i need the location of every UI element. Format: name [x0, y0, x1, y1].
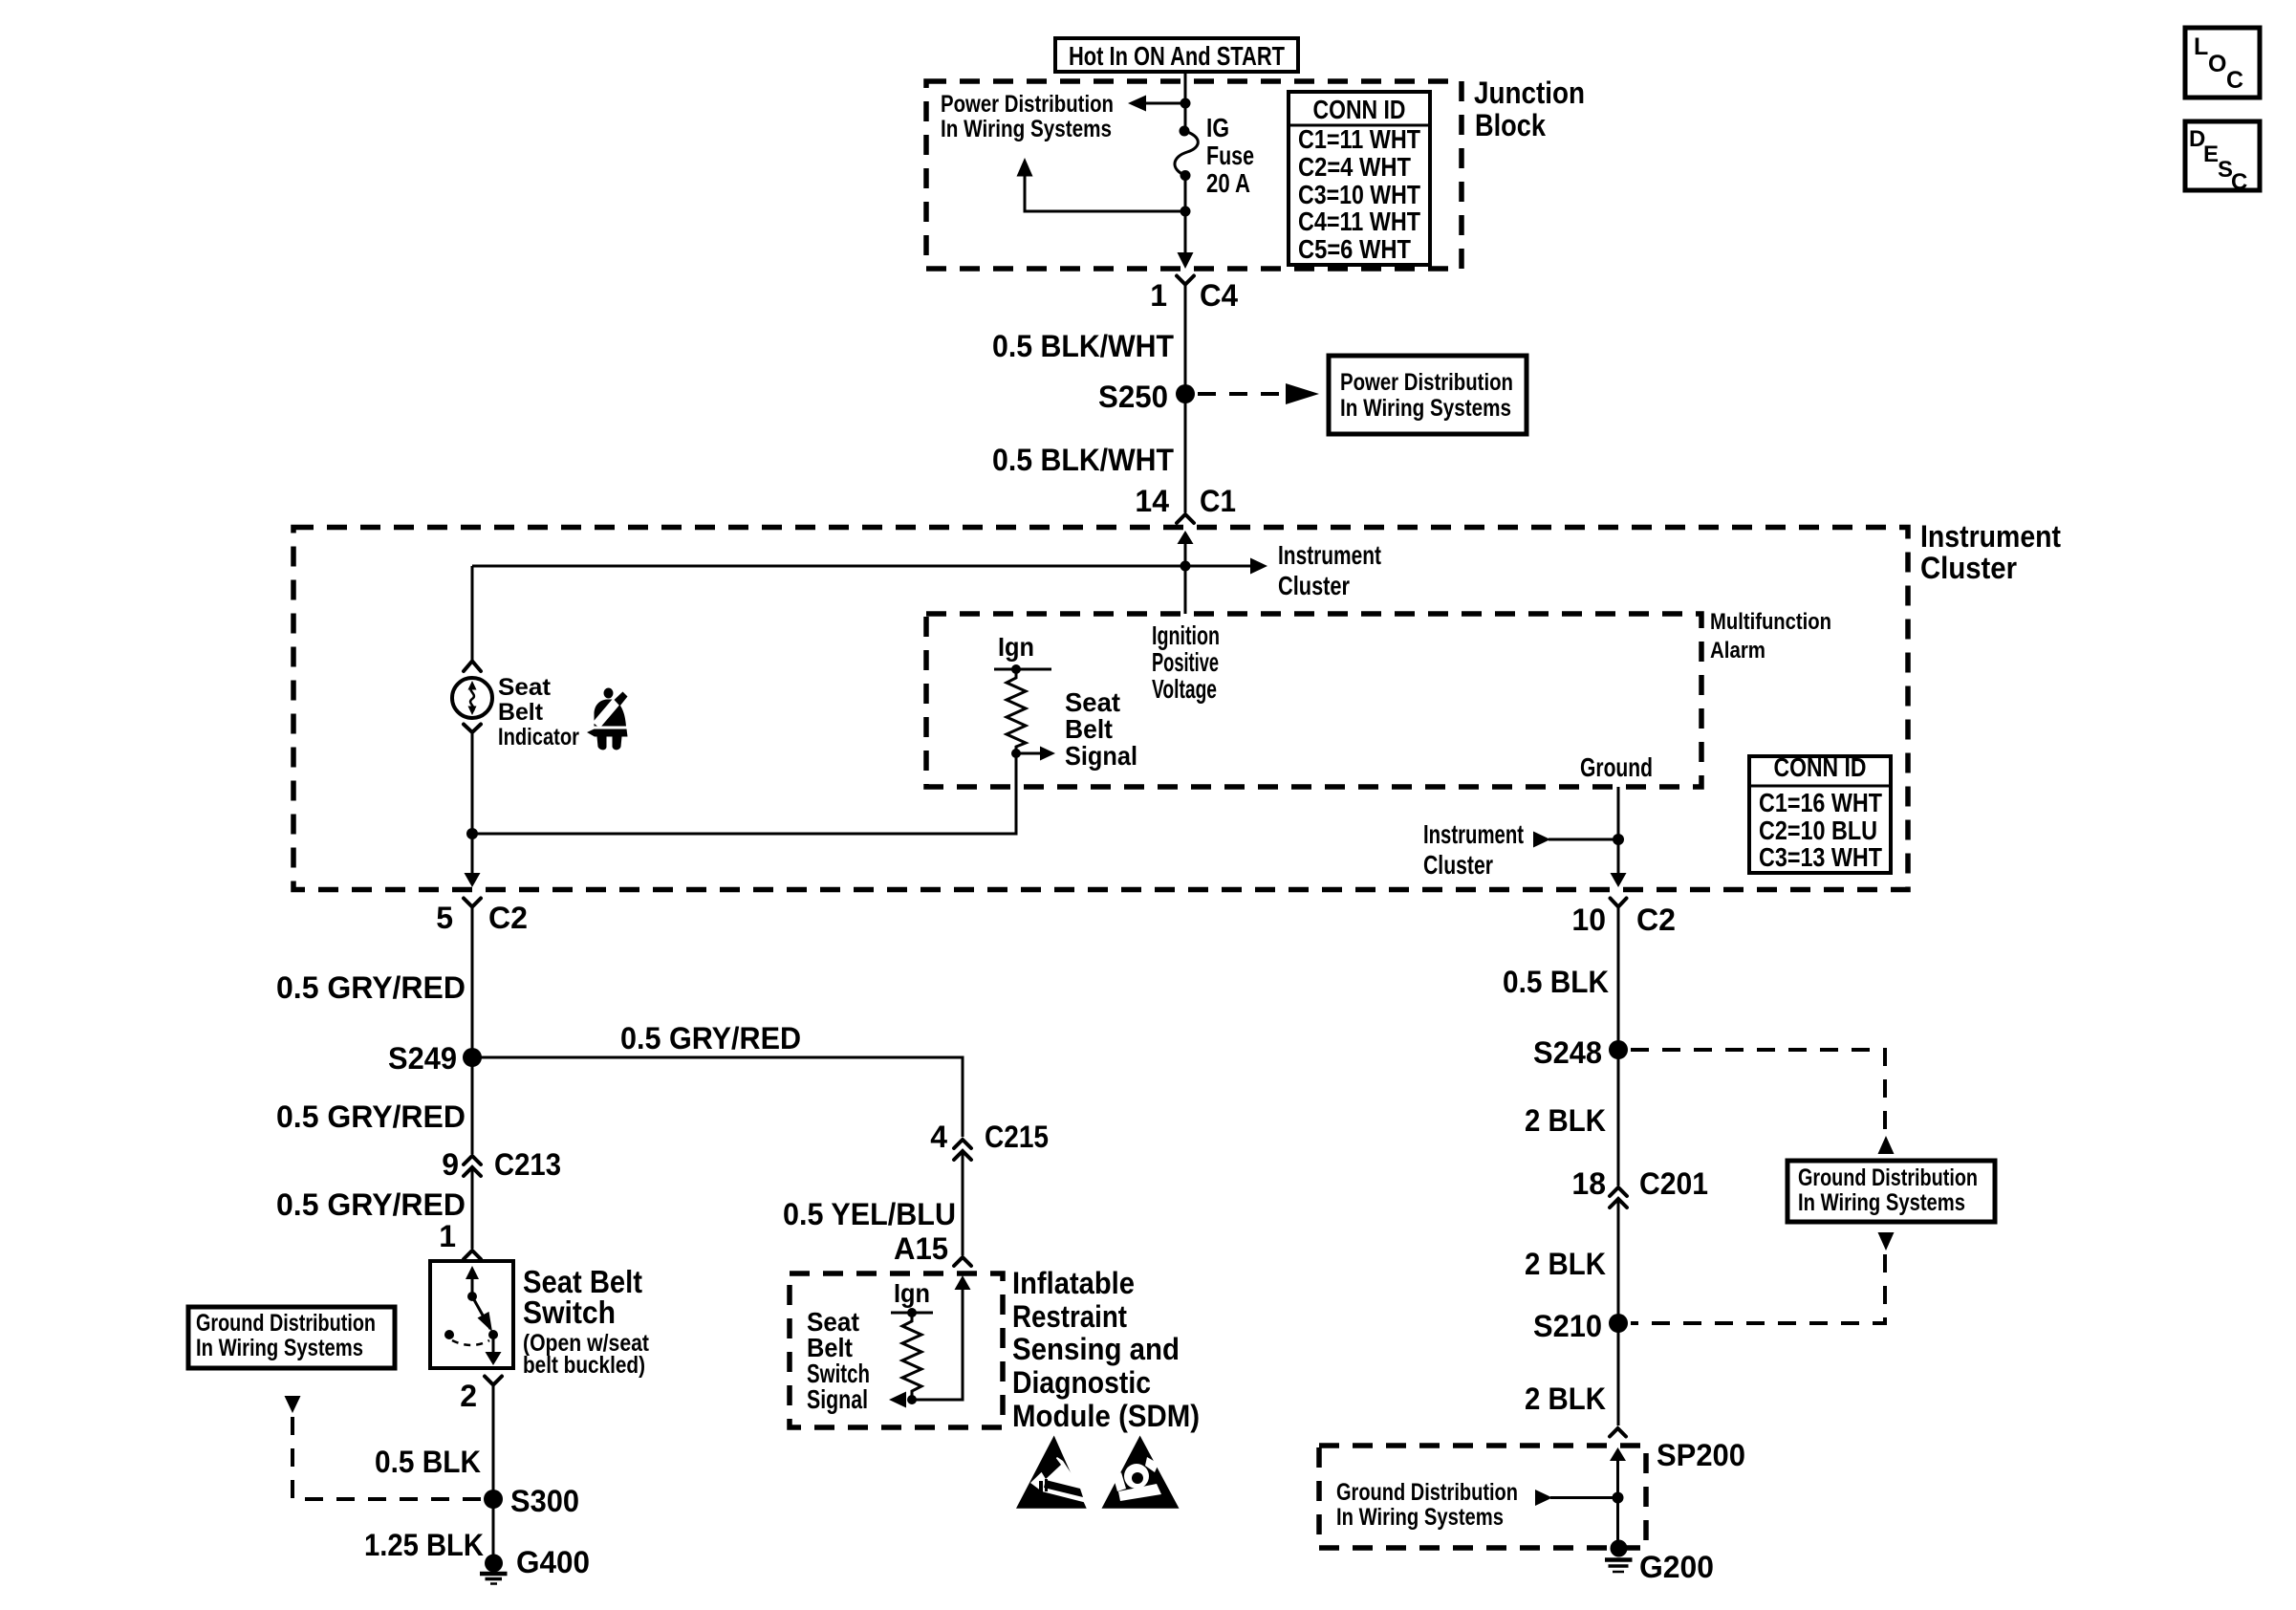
ESD warning triangle (electrostatic) — [1016, 1436, 1087, 1509]
svg-text:0.5 BLK: 0.5 BLK — [375, 1445, 481, 1479]
svg-text:In Wiring Systems: In Wiring Systems — [1336, 1504, 1504, 1531]
svg-text:C1: C1 — [1200, 484, 1236, 518]
multifunction alarm (dashed box) — [926, 614, 1701, 787]
label: Ignition Positive Voltage — [1152, 620, 1220, 704]
svg-text:18: 18 — [1571, 1166, 1606, 1201]
connector 4 C215 (in-line) — [930, 1120, 1049, 1160]
svg-text:C2=4 WHT: C2=4 WHT — [1298, 152, 1411, 182]
dashed reference link from S248 to ground distribution — [1631, 1050, 1895, 1154]
svg-text:Power Distribution: Power Distribution — [1340, 369, 1513, 396]
svg-text:C: C — [2226, 67, 2243, 94]
svg-text:S249: S249 — [388, 1041, 457, 1076]
entry arrow A15 into SDM — [912, 1275, 971, 1400]
svg-text:20 A: 20 A — [1206, 168, 1250, 198]
svg-text:C215: C215 — [985, 1120, 1049, 1154]
entry arrow C1 into instrument cluster — [1178, 531, 1194, 566]
svg-text:SP200: SP200 — [1657, 1438, 1745, 1472]
svg-text:0.5 BLK/WHT: 0.5 BLK/WHT — [992, 329, 1174, 363]
svg-text:Signal: Signal — [807, 1384, 868, 1414]
svg-text:Multifunction: Multifunction — [1710, 609, 1831, 635]
connector SP200 (chevron above splice pack) — [1610, 1428, 1626, 1437]
svg-text:2 BLK: 2 BLK — [1525, 1382, 1606, 1416]
svg-text:Ignition: Ignition — [1152, 620, 1220, 650]
svg-text:Cluster: Cluster — [1920, 551, 2017, 585]
wire 10 C2 down to S248 — [1617, 907, 1620, 1051]
svg-text:Fuse: Fuse — [1206, 141, 1254, 170]
splice S250 — [1098, 380, 1195, 414]
svg-text:4: 4 — [930, 1120, 947, 1154]
ground wire (multifunction alarm) — [1580, 752, 1653, 881]
svg-text:0.5 GRY/RED: 0.5 GRY/RED — [276, 1187, 466, 1222]
svg-text:Power Distribution: Power Distribution — [941, 91, 1114, 118]
SP200 splice pack (dashed box) — [1319, 1446, 1646, 1548]
svg-text:0.5 BLK/WHT: 0.5 BLK/WHT — [992, 443, 1174, 477]
connector 5 C2 (left) — [436, 899, 528, 936]
connector pin 2 (seat belt switch) — [460, 1377, 502, 1414]
node at resistor bottom — [1011, 749, 1021, 758]
wire S300 to G400 — [492, 1499, 495, 1556]
svg-text:Hot In ON And START: Hot In ON And START — [1069, 41, 1285, 71]
svg-text:S248: S248 — [1533, 1035, 1602, 1070]
svg-text:C201: C201 — [1639, 1166, 1708, 1201]
svg-text:C213: C213 — [494, 1147, 561, 1182]
svg-text:2 BLK: 2 BLK — [1525, 1247, 1606, 1281]
wire down to S249 splice continued (left column to C213) — [471, 1057, 474, 1154]
svg-text:C2: C2 — [488, 901, 528, 935]
svg-text:Ground: Ground — [1580, 752, 1653, 782]
svg-text:0.5 YEL/BLU: 0.5 YEL/BLU — [783, 1197, 956, 1231]
svg-text:CONN ID: CONN ID — [1313, 95, 1406, 124]
svg-text:C: C — [2231, 169, 2247, 195]
splice S210 — [1533, 1309, 1628, 1343]
svg-text:Sensing and: Sensing and — [1012, 1332, 1180, 1366]
wire C2 to S249 — [471, 907, 474, 1058]
svg-text:S300: S300 — [510, 1484, 579, 1518]
svg-text:Ign: Ign — [894, 1278, 930, 1308]
connector 10 C2 (right) — [1571, 899, 1676, 938]
callout box: Ground Distribution In Wiring Systems (left) — [188, 1307, 395, 1368]
node inside SP200 — [1613, 1492, 1624, 1504]
dashed reference link from ground distribution to S210 — [1631, 1232, 1895, 1323]
dashed reference arrow from S250 — [1198, 383, 1319, 404]
arrow out of junction block bottom — [1178, 252, 1194, 269]
svg-text:In Wiring Systems: In Wiring Systems — [1340, 395, 1511, 422]
svg-text:2: 2 — [460, 1379, 477, 1413]
node at resistor bottom (SDM) — [907, 1395, 917, 1404]
callout box: Ground Distribution In Wiring Systems (right) — [1787, 1161, 1995, 1222]
junction block (dashed module box) — [926, 81, 1462, 269]
wire C201 to S210 — [1617, 1199, 1620, 1323]
svg-text:Instrument: Instrument — [1920, 519, 2061, 554]
svg-text:Positive: Positive — [1152, 647, 1219, 677]
wire below fuse — [1184, 176, 1187, 255]
svg-text:Indicator: Indicator — [498, 724, 579, 751]
svg-text:C2=10 BLU: C2=10 BLU — [1759, 816, 1877, 845]
SDM (dashed module box) — [790, 1273, 1003, 1427]
splice S248 — [1533, 1035, 1628, 1070]
svg-text:2 BLK: 2 BLK — [1525, 1103, 1606, 1138]
wire pin2 to S300 — [492, 1385, 495, 1500]
svg-text:Belt: Belt — [498, 699, 544, 726]
splice S249 — [388, 1041, 482, 1076]
svg-text:Ground Distribution: Ground Distribution — [196, 1310, 376, 1337]
svg-text:Inflatable: Inflatable — [1012, 1266, 1135, 1300]
LOC reference box — [2185, 28, 2260, 98]
svg-text:Cluster: Cluster — [1423, 850, 1493, 880]
svg-text:Belt: Belt — [1065, 714, 1113, 744]
svg-text:In Wiring Systems: In Wiring Systems — [1798, 1189, 1965, 1216]
svg-text:C1=11 WHT: C1=11 WHT — [1298, 124, 1420, 154]
svg-text:Switch: Switch — [523, 1295, 616, 1330]
svg-text:Ground Distribution: Ground Distribution — [1798, 1164, 1978, 1191]
svg-text:S250: S250 — [1098, 380, 1168, 414]
svg-text:G400: G400 — [516, 1545, 590, 1579]
seat belt pictograph icon — [587, 688, 628, 751]
wire C213 to seat belt switch — [471, 1167, 474, 1249]
svg-text:Seat: Seat — [1065, 687, 1120, 717]
junction block title — [1474, 76, 1585, 142]
svg-text:0.5 GRY/RED: 0.5 GRY/RED — [276, 970, 466, 1005]
svg-text:L: L — [2194, 33, 2208, 60]
svg-text:9: 9 — [442, 1147, 459, 1182]
wire S210 to SP200 — [1617, 1323, 1620, 1425]
svg-text:C4: C4 — [1200, 278, 1238, 313]
label: Inflatable Restraint Sensing and Diagnostic Module (SDM) — [1012, 1266, 1200, 1433]
label: Seat Belt Indicator — [498, 674, 579, 751]
wire: indicator feed from ignition bus — [471, 566, 474, 661]
multifunction alarm title — [1710, 609, 1831, 664]
svg-text:belt buckled): belt buckled) — [523, 1352, 645, 1379]
svg-text:S210: S210 — [1533, 1309, 1602, 1343]
connector 14 C1 (chevron at instrument cluster) — [1135, 484, 1236, 523]
wire S249 branch to C215 — [472, 1057, 963, 1137]
arrow: Seat Belt Switch Signal — [807, 1307, 906, 1414]
connector 9 C213 (in-line) — [442, 1147, 561, 1182]
svg-text:5: 5 — [436, 901, 453, 935]
svg-text:O: O — [2208, 51, 2226, 77]
svg-text:CONN ID: CONN ID — [1774, 752, 1867, 782]
exit arrow into connector C2 (right) — [1611, 873, 1627, 887]
Ign internal source (multifunction alarm) — [994, 632, 1051, 674]
wire branch to Power Distribution (left arrow) — [1128, 96, 1185, 112]
switch contacts — [444, 1266, 502, 1365]
arrow: Seat Belt Signal — [1016, 687, 1137, 771]
DESC reference box — [2185, 121, 2260, 195]
connector A15 (chevron at SDM) — [894, 1231, 971, 1266]
splice S300 — [484, 1484, 579, 1518]
label: Seat Belt Switch — [523, 1264, 650, 1379]
svg-text:Alarm: Alarm — [1710, 638, 1765, 664]
svg-text:1: 1 — [1150, 278, 1167, 313]
svg-text:Instrument: Instrument — [1423, 819, 1524, 849]
svg-text:Signal: Signal — [1065, 741, 1137, 771]
svg-text:A15: A15 — [894, 1231, 948, 1266]
wire C215 to A15 — [962, 1151, 964, 1255]
entry arrow into SP200 — [1610, 1447, 1626, 1542]
svg-text:0.5 GRY/RED: 0.5 GRY/RED — [620, 1021, 801, 1055]
node (junction dot at power distribution branch) — [1180, 98, 1191, 109]
label box: Hot In ON And START — [1055, 38, 1298, 72]
airbag warning triangle — [1102, 1436, 1180, 1509]
svg-text:10: 10 — [1571, 903, 1606, 937]
ground G200 — [1605, 1540, 1714, 1585]
instrument cluster title — [1920, 519, 2061, 585]
svg-text:C5=6 WHT: C5=6 WHT — [1298, 234, 1411, 264]
CONN ID table (instrument cluster) — [1749, 752, 1891, 873]
connector 1 C4 (fork symbol) — [1150, 276, 1238, 314]
connector 18 C201 (in-line) — [1571, 1166, 1708, 1207]
svg-text:0.5 GRY/RED: 0.5 GRY/RED — [276, 1099, 466, 1134]
svg-text:1: 1 — [439, 1219, 456, 1253]
wire down to multifunction alarm — [1184, 566, 1187, 614]
internal arrow: Ground Distribution In Wiring Systems (SP200) — [1336, 1479, 1618, 1531]
node on ground wire — [1613, 834, 1624, 845]
connector pin 1 (seat belt switch) — [439, 1219, 481, 1259]
callout box: Power Distribution In Wiring Systems — [1329, 356, 1527, 434]
svg-text:E: E — [2203, 141, 2219, 167]
CONN ID table (junction block) — [1289, 92, 1430, 265]
svg-text:Cluster: Cluster — [1278, 571, 1350, 600]
label: Power Distribution In Wiring Systems (junction block) — [941, 91, 1114, 142]
fuse IG 20A — [1175, 126, 1198, 182]
svg-text:IG: IG — [1206, 113, 1229, 142]
svg-text:1.25 BLK: 1.25 BLK — [364, 1528, 484, 1562]
ground G400 — [480, 1545, 590, 1584]
svg-text:C3=10 WHT: C3=10 WHT — [1298, 180, 1420, 209]
node — [1180, 561, 1191, 572]
label: IG Fuse 20 A — [1206, 113, 1254, 198]
svg-text:G200: G200 — [1639, 1550, 1714, 1584]
svg-text:14: 14 — [1135, 484, 1169, 518]
instrument cluster (dashed module box) — [293, 528, 1908, 890]
svg-text:Ign: Ign — [998, 632, 1034, 662]
seat belt indicator lamp — [452, 662, 492, 733]
resistor (SDM) — [902, 1313, 921, 1400]
svg-text:In Wiring Systems: In Wiring Systems — [196, 1335, 363, 1361]
internal arrow: Instrument Cluster ground — [1423, 819, 1618, 880]
wire C4 to C1 — [1184, 285, 1187, 513]
svg-text:Ground Distribution: Ground Distribution — [1336, 1479, 1518, 1506]
svg-text:Restraint: Restraint — [1012, 1299, 1127, 1334]
svg-text:Diagnostic: Diagnostic — [1012, 1365, 1151, 1400]
exit arrow into connector C2 — [465, 873, 481, 887]
svg-text:Voltage: Voltage — [1152, 674, 1217, 704]
svg-text:Junction: Junction — [1474, 76, 1585, 110]
node (junction dot at upward branch) — [1180, 207, 1191, 217]
Ign internal source (SDM) — [891, 1278, 933, 1317]
dashed reference link to S300 — [285, 1396, 483, 1499]
svg-text:C1=16 WHT: C1=16 WHT — [1759, 788, 1882, 817]
wire from indicator down to C2 — [471, 732, 474, 834]
svg-text:Seat: Seat — [498, 674, 552, 701]
seat belt switch box — [430, 1261, 513, 1368]
svg-text:0.5 BLK: 0.5 BLK — [1503, 965, 1609, 999]
wire branch with up arrow (power distribution feed) — [1017, 158, 1186, 211]
svg-text:Block: Block — [1475, 108, 1546, 142]
svg-text:C3=13 WHT: C3=13 WHT — [1759, 842, 1882, 872]
wire from Hot In ON And START into junction block — [1184, 72, 1187, 136]
svg-text:C2: C2 — [1636, 903, 1676, 937]
svg-text:In Wiring Systems: In Wiring Systems — [941, 116, 1112, 142]
arrow to Instrument Cluster internal — [1185, 540, 1381, 600]
svg-text:Module (SDM): Module (SDM) — [1012, 1399, 1200, 1433]
resistor (multifunction alarm) — [1007, 669, 1026, 753]
wire from seat belt signal down and left to indicator — [472, 753, 1016, 834]
svg-text:Instrument: Instrument — [1278, 540, 1381, 570]
wire S248 to C201 — [1617, 1050, 1620, 1186]
wire: ignition bus inside cluster — [472, 565, 1185, 568]
svg-text:C4=11 WHT: C4=11 WHT — [1298, 207, 1420, 236]
node on indicator wire — [466, 828, 478, 839]
